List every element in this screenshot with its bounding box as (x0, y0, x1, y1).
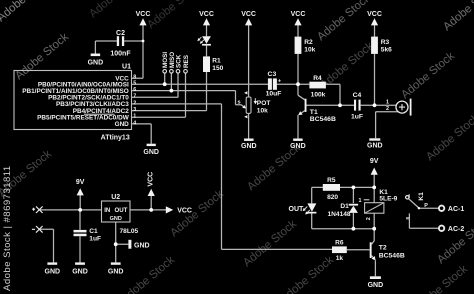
svg-text:POT: POT (257, 100, 271, 107)
svg-text:GND: GND (367, 143, 383, 150)
svg-text:10k: 10k (257, 108, 268, 115)
svg-text:AC-2: AC-2 (448, 226, 464, 233)
svg-text:1k: 1k (336, 255, 344, 262)
svg-text:GND: GND (72, 269, 88, 276)
svg-text:VCC: VCC (148, 172, 155, 187)
svg-text:GND: GND (368, 282, 384, 289)
svg-text:5k6: 5k6 (381, 47, 392, 54)
svg-text:9V: 9V (76, 179, 85, 186)
svg-text:s: s (405, 217, 411, 220)
svg-text:GND: GND (115, 121, 130, 128)
svg-text:AC-1: AC-1 (448, 206, 464, 213)
svg-text:U2: U2 (111, 194, 120, 201)
svg-text:9V: 9V (370, 158, 379, 165)
svg-text:100nF: 100nF (110, 50, 131, 57)
svg-text:T2: T2 (379, 245, 387, 252)
svg-text:1: 1 (386, 99, 389, 105)
svg-text:4: 4 (133, 120, 136, 126)
svg-text:1uF: 1uF (351, 114, 363, 121)
svg-text:OUT: OUT (115, 207, 128, 214)
svg-text:2: 2 (366, 217, 372, 220)
svg-text:R3: R3 (381, 39, 390, 46)
svg-text:R5: R5 (327, 177, 336, 184)
svg-text:D1: D1 (340, 203, 349, 210)
svg-text:1: 1 (359, 198, 362, 204)
svg-text:GND: GND (88, 60, 104, 67)
svg-text:5: 5 (133, 81, 136, 87)
svg-text:1uF: 1uF (89, 236, 101, 243)
svg-text:GND: GND (134, 242, 150, 249)
svg-text:78L05: 78L05 (120, 228, 139, 235)
svg-text:VCC: VCC (177, 207, 192, 214)
svg-text:R4: R4 (313, 75, 322, 82)
svg-text:10uF: 10uF (266, 90, 282, 97)
svg-text:150: 150 (212, 65, 223, 72)
svg-text:GND: GND (110, 216, 122, 222)
svg-text:GND: GND (108, 269, 124, 276)
svg-text:s: s (237, 99, 240, 105)
svg-text:R6: R6 (335, 239, 344, 246)
svg-text:R2: R2 (304, 39, 313, 46)
svg-text:5LE-9: 5LE-9 (379, 195, 397, 202)
svg-text:VCC: VCC (199, 11, 214, 18)
svg-text:R1: R1 (212, 57, 221, 64)
svg-text:OUT: OUT (289, 206, 305, 213)
svg-text:ATtiny13: ATtiny13 (101, 134, 130, 141)
svg-text:2: 2 (133, 100, 136, 106)
svg-text:10k: 10k (304, 47, 315, 54)
svg-text:C2: C2 (116, 30, 125, 37)
svg-text:1N4148: 1N4148 (327, 211, 350, 218)
svg-text:BC546B: BC546B (379, 252, 405, 259)
svg-text:Adobe Stock | #869731811: Adobe Stock | #869731811 (2, 165, 13, 291)
svg-text:C4: C4 (353, 92, 362, 99)
svg-text:T1: T1 (310, 109, 318, 116)
svg-text:VCC: VCC (136, 11, 151, 18)
svg-text:2: 2 (386, 106, 389, 112)
svg-text:100k: 100k (311, 92, 326, 99)
svg-text:RES: RES (183, 55, 190, 68)
svg-text:K1: K1 (418, 192, 425, 201)
svg-text:SCK: SCK (176, 54, 183, 68)
svg-text:U1: U1 (122, 64, 131, 71)
svg-text:GND: GND (143, 149, 159, 156)
svg-text:VCC: VCC (291, 11, 306, 18)
svg-text:1: 1 (133, 114, 136, 120)
svg-text:GND: GND (45, 269, 61, 276)
svg-text:P: P (424, 203, 428, 209)
svg-text:VCC: VCC (367, 11, 382, 18)
svg-text:GND: GND (241, 143, 257, 150)
svg-text:GND: GND (290, 143, 306, 150)
svg-text:C1: C1 (89, 228, 98, 235)
svg-text:6: 6 (133, 87, 136, 93)
svg-text:3: 3 (133, 107, 136, 113)
svg-text:IN: IN (104, 207, 110, 214)
svg-text:VCC: VCC (241, 11, 256, 18)
svg-text:BC546B: BC546B (310, 116, 336, 123)
svg-text:7: 7 (133, 94, 136, 100)
svg-text:820: 820 (327, 194, 338, 201)
svg-text:C3: C3 (268, 71, 277, 78)
